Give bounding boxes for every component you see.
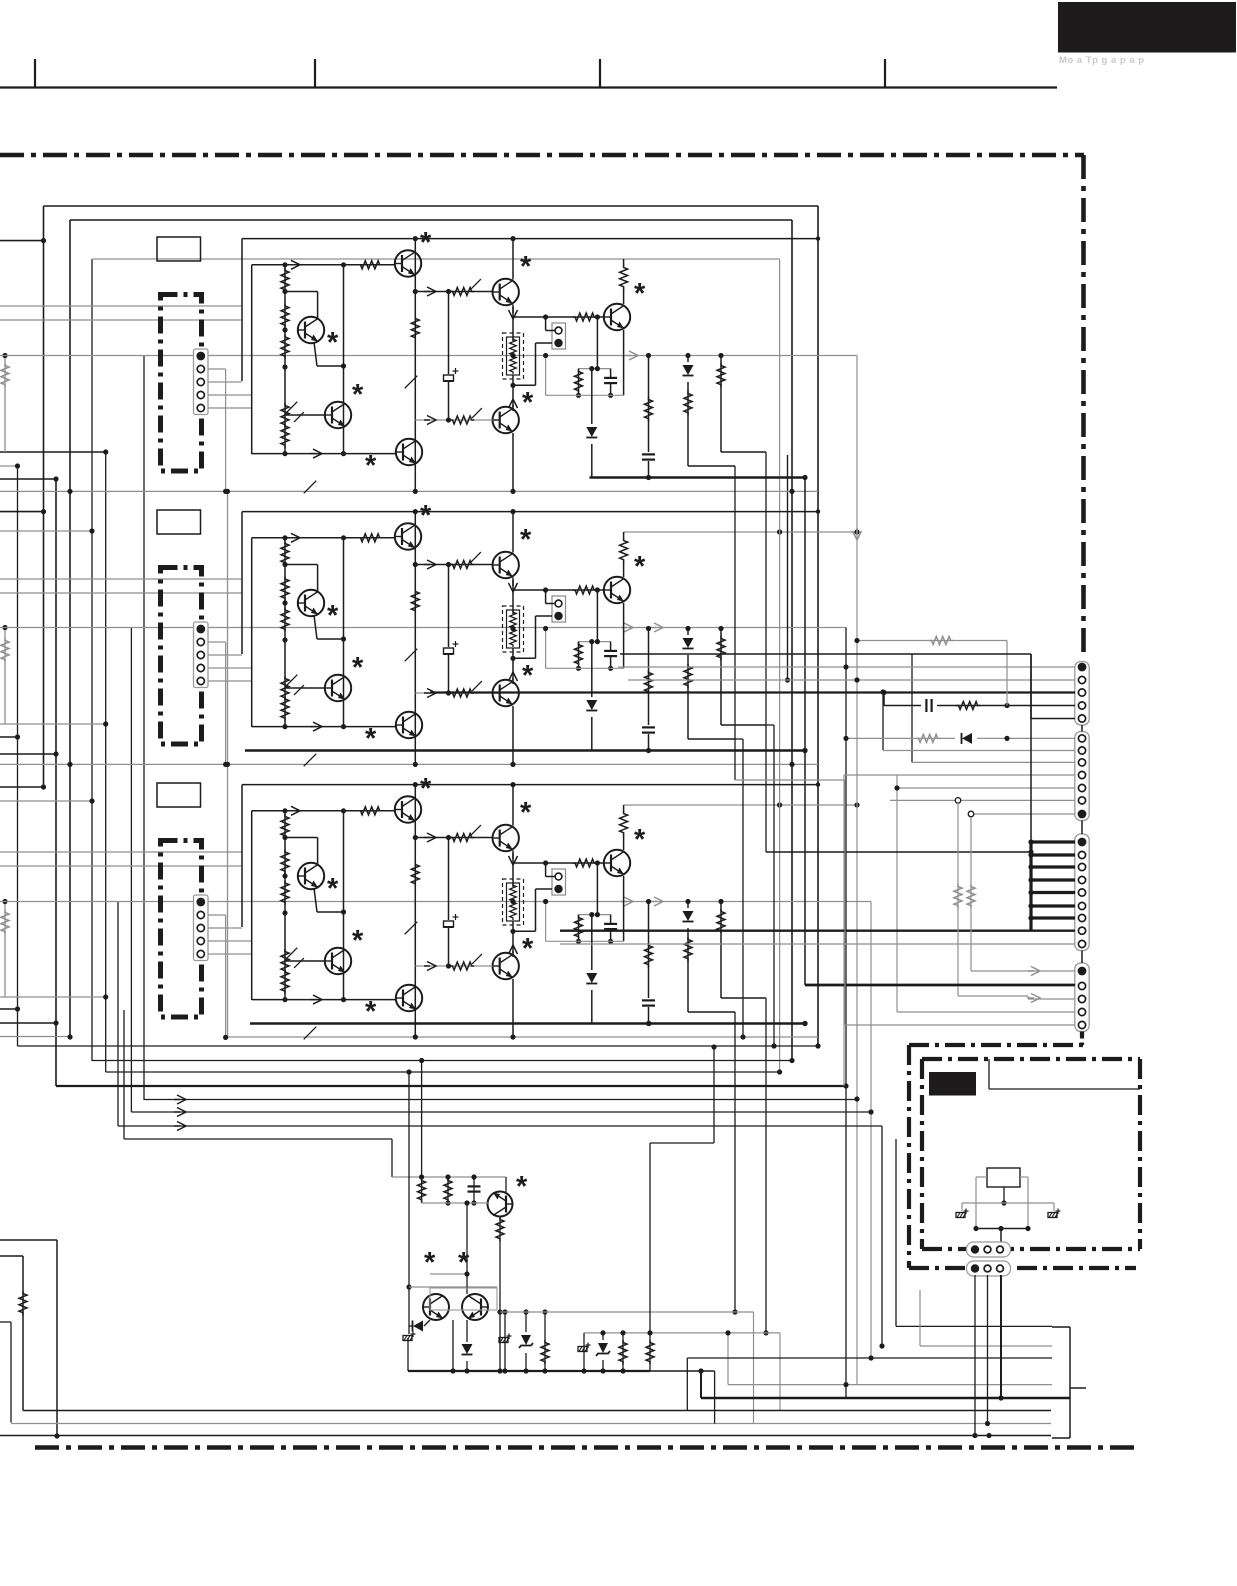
resistor branch y640 <box>857 640 1007 642</box>
ch1 shield dash-dot box <box>161 295 202 472</box>
ch3 ballast resistors <box>510 883 517 903</box>
sense resistor R-b / wire <box>4 628 6 725</box>
ch1 transistor Q1 <box>298 317 324 343</box>
wire to R2 pin4 <box>844 774 1075 776</box>
ch3 resistor on x415 <box>411 862 419 886</box>
ground right <box>1053 1203 1055 1211</box>
junction rail2 x513 <box>510 762 515 767</box>
bus stub R3 y918 <box>1031 916 1075 919</box>
entry wire y737 <box>0 736 18 738</box>
ch3 bias conn top wire <box>545 863 547 877</box>
svg-text:*: * <box>327 873 339 905</box>
ch3 resistor Rb2 <box>281 850 289 874</box>
ch1 feedback cap wire <box>448 292 450 421</box>
bus stub R3 pin1 <box>1031 840 1075 843</box>
fan arrow y1112 <box>174 1108 186 1117</box>
bus wire vertical x92 <box>91 259 93 1061</box>
entry wire y306 <box>0 305 242 307</box>
ch1 transistor Q6 <box>493 407 519 433</box>
ch1 Q1 collector wire <box>285 291 318 293</box>
bus stub R3 y867 <box>1031 865 1075 868</box>
ch1 Q2 base wire <box>285 414 325 416</box>
ch3 Q7 emitter <box>623 876 625 941</box>
ch3 bias chain wire <box>284 811 286 1000</box>
link CN-R3/R4 <box>1081 951 1083 964</box>
ch2 main vert x415 <box>414 512 416 765</box>
ch1 resistor Rb4 <box>281 424 289 448</box>
ch3 leg x721 <box>720 902 722 999</box>
ch3 ballast dashed box <box>507 883 520 921</box>
junction rail2 x415 <box>413 762 418 767</box>
wire to R2 pin1 <box>846 737 1075 739</box>
arrow to R4 pin1 <box>1028 967 1040 976</box>
bus wire vertical x56 <box>55 479 57 1086</box>
jog wire ch2 x774 <box>766 724 774 726</box>
feeder x650 <box>649 1143 651 1333</box>
entry wire y801 <box>0 800 92 802</box>
ch1 leg x688 resistor <box>684 391 692 415</box>
entry wire y452 <box>0 451 106 453</box>
signal line A2 <box>0 627 846 629</box>
cluster transistor Q12 <box>462 1294 488 1320</box>
ch1 lower arrow <box>310 449 322 458</box>
ch2 feedback cap wire <box>448 565 450 694</box>
ch3 Q1 emitter wire <box>314 888 317 912</box>
ch1 top rail <box>242 238 818 240</box>
fan wire y1072 <box>106 1071 780 1073</box>
jog wire ch2 x743 <box>735 738 743 740</box>
wire to R1 pin3 (thick) <box>430 691 1075 693</box>
ch3 rc top wire <box>579 914 611 916</box>
ch1 leg x688 <box>687 356 689 467</box>
ch3 drive line <box>415 837 492 839</box>
bus wire vertical x144 <box>143 356 145 1101</box>
connector CN-R3 pins <box>1078 838 1087 847</box>
ch2 pin4 stub <box>208 667 252 669</box>
entry wire y1009 <box>0 1008 18 1010</box>
cluster diode D10 <box>413 1321 423 1332</box>
entry wire y466 <box>0 465 18 467</box>
ch2 diode leg <box>591 642 593 751</box>
junction 105/452 <box>103 449 108 454</box>
ch1 zobel capacitor <box>610 369 612 396</box>
shield box outer right <box>817 206 819 1046</box>
cluster leg x505 ground <box>504 1312 506 1371</box>
ch1 Q6 base line <box>415 419 492 421</box>
trunk x846 <box>845 628 847 1399</box>
ch3 leg x688 <box>687 902 689 1013</box>
ch3 connector CN box <box>194 895 209 961</box>
cluster Q12 emitter <box>466 1320 468 1371</box>
relay center lead <box>1003 1187 1005 1203</box>
ch1 drive junction <box>413 289 418 294</box>
cluster R1 <box>418 1178 426 1202</box>
ch1 leg x648 capacitor <box>641 452 656 461</box>
ch3 leg x648 capacitor <box>641 998 656 1007</box>
signal line A1 <box>0 355 857 357</box>
riser x844 <box>843 775 845 1086</box>
wire to CN-A <box>1000 1229 1002 1244</box>
ch2 return junctions <box>646 748 651 753</box>
power unit label (black) <box>929 1072 976 1096</box>
svg-text:*: * <box>516 1171 528 1203</box>
ch3 connector pin1 <box>196 898 205 907</box>
ch1 rc left wire <box>545 356 547 396</box>
junction rail3 x415 <box>413 1034 418 1039</box>
wire to R3 pin9 <box>560 943 1075 945</box>
riser x787 <box>787 455 789 680</box>
board outline dash-dot bottom <box>35 1445 1141 1450</box>
connector CN-B pins <box>971 1264 979 1272</box>
ch2 lower line <box>252 726 396 728</box>
ch3 top rail junctions <box>413 782 418 787</box>
shield box outer top <box>44 205 819 207</box>
ch2 Q6 base line <box>415 692 492 694</box>
ch1 Q1 emitter wire <box>314 342 317 366</box>
relay right lead <box>1020 1176 1028 1178</box>
svg-text:*: * <box>352 925 364 957</box>
ch3 transistor Q7 <box>604 850 630 876</box>
connector CN-R1 body <box>1075 662 1089 726</box>
ch3 resistor Rb1 <box>281 814 289 838</box>
ch1 transistor Q3 <box>395 250 421 276</box>
ch2 connector CN box <box>194 622 209 688</box>
ch1 zobel resistor <box>578 369 580 392</box>
header tick 4 <box>884 59 886 88</box>
cluster Q10 emitter <box>505 1177 507 1192</box>
fan wire y1139 <box>124 1138 392 1140</box>
group leg x623 res <box>622 1333 624 1371</box>
drop x714 <box>714 1371 716 1424</box>
ch1 input line <box>252 264 395 266</box>
ch1 resistor Rb1 <box>281 268 289 292</box>
group leg x650 res <box>649 1333 651 1371</box>
cluster diode D11 <box>460 1342 474 1361</box>
ch2 thick return <box>245 749 806 752</box>
bottom rail block1 <box>0 490 818 492</box>
ch2 arrow up to Q6 <box>509 672 518 684</box>
ch1 ballast resistors <box>510 337 517 357</box>
ch3 zobel resistor <box>578 915 580 938</box>
ch1 diode D1 <box>585 424 599 444</box>
bus wire vertical x131 <box>130 628 132 1112</box>
ch2 input line <box>252 537 395 539</box>
ch3 resistor Rb4 <box>281 970 289 994</box>
header tick 3 <box>599 59 601 88</box>
bl wire y1256 <box>0 1255 23 1257</box>
wire y852 dark <box>766 851 1031 853</box>
drop x780 <box>779 1333 781 1411</box>
ch2 leg x688 <box>687 629 689 740</box>
ch3 transistor Q5 <box>493 825 519 851</box>
wire to R1 pin1 <box>618 666 1075 668</box>
ch2 mid vert x343 <box>343 538 345 727</box>
ch2 transistor Q6 <box>493 680 519 706</box>
sense resistor R-c / wire <box>4 902 6 998</box>
ch2 drive resistor <box>450 561 474 569</box>
harness bracket <box>1069 1327 1071 1438</box>
drop x753 <box>753 1312 755 1424</box>
ch2 leg x721 <box>720 629 722 726</box>
svg-text:*: * <box>634 551 646 583</box>
resistor on R2 pin1 wire <box>916 734 940 742</box>
power unit label wire <box>988 1059 990 1089</box>
cluster feed x467 <box>466 1203 468 1294</box>
ch3 trimmer VR <box>281 949 289 973</box>
ch3 pin3 stub <box>208 927 242 929</box>
entry wire y479 <box>0 478 56 480</box>
connector CN-A body <box>967 1242 1011 1257</box>
ch3 Q5 emitter+arrow <box>512 851 514 888</box>
bl run y1435 <box>0 1435 1051 1437</box>
ch2 transistor Q4 <box>396 712 422 738</box>
ch3 Q5 collector <box>512 785 514 826</box>
entry wire y866 <box>0 865 242 867</box>
entry wire y997 <box>0 996 106 998</box>
sense resistor R-a / wire <box>4 356 6 453</box>
ch1 polar capacitor <box>443 374 454 382</box>
ch1 rc top wire <box>579 368 611 370</box>
jog wire ch3 x735 <box>734 1012 736 1312</box>
ground left <box>961 1203 963 1211</box>
connector CN-R2 pins <box>1078 735 1085 742</box>
ch3 pin5 stub <box>208 953 252 955</box>
fan wire y1046 <box>18 1045 819 1047</box>
wire to R2 pin2 <box>883 750 1075 752</box>
ch2 Q1 collector wire <box>285 564 318 566</box>
svg-text:Mo a Tp g a p a p: Mo a Tp g a p a p <box>1059 55 1145 66</box>
wire to R4 pin5 <box>844 780 846 1025</box>
power unit inner box right <box>1138 1059 1142 1249</box>
ch2 Q6 base arrow <box>424 689 436 698</box>
ch3 leg x648 resistor <box>645 943 653 967</box>
ch3 transistor Q6 <box>493 953 519 979</box>
entry wire y1023 <box>0 1022 56 1024</box>
fan wire y1126 <box>118 1125 882 1127</box>
shield box outer left <box>43 206 45 785</box>
ch1 drive line <box>415 291 492 293</box>
junction rail1 x70 <box>67 489 72 494</box>
connector CN-R1 pins <box>1078 663 1087 672</box>
ch3 rc bottom wire <box>546 940 624 942</box>
ch2 bias connector pins <box>555 600 562 607</box>
ch1 drive resistor <box>450 288 474 296</box>
ch2 Q2 base wire <box>285 687 325 689</box>
ch2 resistor Rb4 <box>281 697 289 721</box>
ch1 thick return <box>590 476 807 479</box>
junction rail3 x513 <box>510 1034 515 1039</box>
junction 43/787 <box>41 784 46 789</box>
CN-B pin drops <box>974 1275 976 1436</box>
resistor on pin4 wire <box>956 702 980 710</box>
ch2 resistor on x415 <box>411 589 419 613</box>
cluster R2 <box>447 1177 449 1203</box>
ch2 leg x688 diode <box>681 635 695 655</box>
ch3 leg x688 diode <box>681 908 695 928</box>
trunk x883 <box>882 692 884 750</box>
svg-text:*: * <box>634 278 646 310</box>
ch2 leg x648 resistor <box>645 670 653 694</box>
ch1 Q6 base arrow <box>424 416 436 425</box>
ch2 transistor Q1 <box>298 590 324 616</box>
connector CN-R4 pins <box>1078 967 1087 976</box>
bottom rail block3 <box>0 1036 70 1038</box>
ch3 pin2 stub <box>208 914 226 916</box>
junction 92/801 <box>89 798 94 803</box>
collector top line y532 <box>624 531 857 533</box>
ch2 rc top wire <box>579 641 611 643</box>
return bus x227 <box>227 491 229 1037</box>
shield box inner left <box>69 220 71 1037</box>
ch1 transistor Q5 <box>493 279 519 305</box>
fan arrow y1099 <box>174 1095 186 1104</box>
ch3 top rail <box>242 784 818 786</box>
header tick 1 <box>34 59 36 88</box>
jog wire ch1 x766 <box>765 452 767 852</box>
wire to R2 pin5 <box>897 787 1075 789</box>
connector CN-B body <box>967 1261 1011 1276</box>
entry wire y320 <box>0 319 242 321</box>
power unit inner box left <box>920 1059 924 1249</box>
ch3 polar capacitor <box>443 920 454 928</box>
svg-text:*: * <box>327 327 339 359</box>
junction 43/511 <box>41 509 46 514</box>
feed y1384 <box>728 1384 1052 1386</box>
ch2 leg x648 <box>648 629 650 751</box>
ch2 diode D1 <box>585 697 599 717</box>
ch3 mid vert x343 <box>343 811 345 1000</box>
riser x779 from y259 <box>779 259 781 1074</box>
ch1 bias connector box <box>552 323 566 349</box>
junction 56/479 <box>53 476 58 481</box>
ch1 Q6 base resistor <box>450 416 474 424</box>
entry wire y241 <box>0 240 44 242</box>
cluster transistor Q10 <box>488 1192 513 1217</box>
svg-text:*: * <box>352 379 364 411</box>
ch3 Q1 collector wire <box>285 837 318 839</box>
ch1 pin5 stub <box>208 407 252 409</box>
ch2 bias conn top wire <box>545 590 547 604</box>
ch1 pin4 stub <box>208 394 252 396</box>
ch2 pin2 stub <box>208 641 226 643</box>
svg-text:*: * <box>352 652 364 684</box>
wire y1228 <box>976 1228 1028 1230</box>
ch1 lower line <box>252 453 396 455</box>
fan wire y1099 <box>144 1099 857 1101</box>
ch2 Q6 emitter <box>512 706 514 764</box>
link CN-R1/R2 <box>1081 725 1083 732</box>
entry wire y579 <box>0 578 242 580</box>
arrow to R4 pin3 <box>1028 994 1040 1003</box>
header tick 2 <box>314 59 316 88</box>
junction rail1 x792 <box>789 489 794 494</box>
board outline dash-dot top <box>0 153 1084 158</box>
ch2 connector pin1 <box>196 625 205 634</box>
ch2 leg x688 resistor <box>684 664 692 688</box>
bl run y1410 <box>23 1410 1051 1412</box>
ch1 Q6 emitter <box>512 433 514 491</box>
ch1 trimmer VR <box>281 403 289 427</box>
ch3 Q6 base resistor <box>450 962 474 970</box>
wire y654 <box>620 653 1031 655</box>
cluster return (thick) <box>408 1370 650 1372</box>
feed y1347 <box>920 1345 1052 1347</box>
cluster pair frame <box>430 1288 497 1310</box>
ch2 bias conn bottom wire <box>536 615 553 617</box>
ch2 polar capacitor <box>443 647 454 655</box>
ch1 bias chain wire <box>284 265 286 454</box>
cluster leg x526 zener <box>525 1312 527 1371</box>
ch2 connector pin2-5 <box>197 638 204 645</box>
group leg x584 ground <box>583 1333 585 1371</box>
signal line A3 <box>0 901 871 903</box>
ch3 Q2 base wire <box>285 960 325 962</box>
cluster transistor Q11 <box>423 1294 449 1320</box>
svg-text:*: * <box>424 1247 436 1279</box>
trunk x871 <box>870 902 872 1359</box>
ch3 leg x648 <box>648 902 650 1024</box>
wire to R4 pin4 <box>897 1011 1075 1013</box>
cluster base wire <box>422 1202 488 1204</box>
ch2 left vert x251 <box>251 538 253 727</box>
relay box <box>987 1168 1020 1187</box>
entry wire y531 <box>0 530 92 532</box>
power unit outer box bottom <box>909 1266 1136 1270</box>
ch2 transistor Q2 <box>325 675 351 701</box>
junction 43/241 <box>41 238 46 243</box>
bl wire y1240 <box>0 1239 57 1241</box>
ch2 transistor Q7 <box>604 577 630 603</box>
shield box inner top <box>70 219 792 221</box>
ch2 input arrow <box>288 533 300 542</box>
trunk x896 <box>895 1139 897 1326</box>
ch2 resistor Rb3 <box>281 608 289 632</box>
ch3 thick return <box>250 1022 806 1025</box>
ch3 transistor Q4 <box>396 985 422 1011</box>
svg-text:*: * <box>520 524 532 556</box>
drop x687 <box>686 1358 688 1411</box>
junction 17/466 <box>15 463 20 468</box>
ch3 transistor Q1 <box>298 863 324 889</box>
ch2 drive junction <box>413 562 418 567</box>
ch2 resistor Rb2 <box>281 577 289 601</box>
ch1 mid vert x343 <box>343 265 345 454</box>
arrow on A2 <box>621 623 633 632</box>
cluster R3 <box>496 1217 504 1241</box>
ch2 emitter wire to Q6 <box>512 648 514 680</box>
connector CN-R3 body <box>1075 834 1089 951</box>
power unit inner box top <box>922 1057 1140 1061</box>
ch2 Q3 base resistor <box>358 534 382 542</box>
ch1 drive arrow <box>424 287 436 296</box>
ch1 bias conn top wire <box>545 317 547 331</box>
ch2 leg x721 resistor <box>717 636 725 660</box>
entry wire y511 <box>0 511 44 513</box>
bl wire y1322 <box>0 1321 11 1323</box>
ch2 rc bottom wire <box>546 667 624 669</box>
ch2 drive line <box>415 564 492 566</box>
ch2 transistor Q3 <box>395 523 421 549</box>
ch3 bottom slash <box>304 1027 317 1040</box>
connector CN-R2 body <box>1075 732 1089 821</box>
ch1 bias conn bottom wire <box>536 342 553 344</box>
ch3 emitter wire to Q6 <box>512 921 514 953</box>
cluster leg x545 res <box>544 1312 546 1371</box>
svg-text:*: * <box>365 450 377 482</box>
arrow on A1 <box>626 351 638 360</box>
power unit outer box left <box>907 1045 911 1268</box>
connector CN-A pins <box>971 1245 979 1253</box>
